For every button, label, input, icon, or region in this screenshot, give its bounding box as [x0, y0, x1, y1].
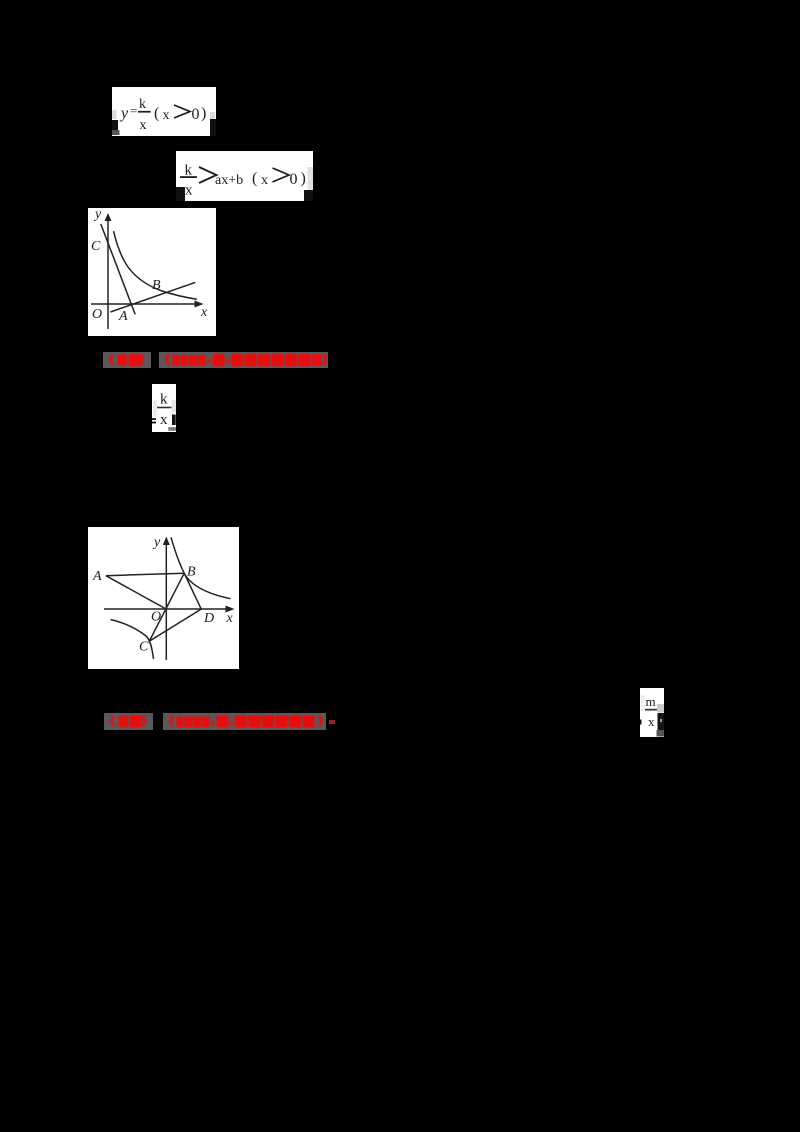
svg-text:x: x	[261, 173, 268, 188]
svg-text:): )	[201, 105, 206, 122]
svg-text:ax+b: ax+b	[215, 173, 243, 188]
fragment glyph bottom-right	[210, 112, 215, 119]
svg-text:y: y	[152, 535, 161, 550]
red highlighted heading 2	[104, 713, 153, 730]
line B-O-C	[149, 573, 184, 641]
svg-text:C: C	[91, 239, 101, 254]
svg-text:k: k	[139, 97, 146, 112]
fragment glyph bottom-left	[176, 187, 185, 201]
graph image 1	[88, 208, 216, 336]
svg-text:x: x	[160, 412, 168, 428]
svg-text:x: x	[163, 108, 170, 123]
svg-text:0: 0	[290, 171, 298, 188]
svg-text:B: B	[187, 565, 196, 580]
hyperbola branch Q3	[111, 620, 154, 660]
svg-text:): )	[301, 170, 306, 187]
x-axis	[104, 608, 229, 610]
line C-A	[101, 224, 135, 314]
fragment glyph bottom-right	[304, 190, 313, 201]
y-axis arrowhead	[163, 537, 170, 546]
svg-text:0: 0	[192, 106, 200, 123]
svg-text:x: x	[140, 118, 147, 133]
y-axis arrowhead	[105, 213, 112, 221]
svg-text:k: k	[185, 163, 193, 179]
svg-text:y: y	[93, 208, 102, 222]
x-axis arrowhead	[195, 301, 204, 308]
equals fragment left	[152, 418, 156, 420]
svg-text:=: =	[130, 103, 137, 118]
svg-text:C: C	[139, 640, 149, 655]
formula image 3: k/x	[152, 384, 176, 432]
hyperbola branch	[114, 231, 197, 299]
dark red dash	[329, 720, 335, 724]
x-axis	[91, 303, 198, 305]
svg-text:A: A	[92, 569, 102, 584]
fragment glyph bottom-left	[112, 120, 118, 130]
formula image 4: m/x	[640, 688, 664, 737]
red highlighted heading 1	[103, 352, 151, 368]
line A-B	[110, 282, 195, 312]
svg-text:k: k	[160, 392, 168, 408]
formula image 1: y = k/x (x>0)	[112, 87, 216, 136]
svg-text:(: (	[252, 170, 257, 187]
line A-B	[106, 573, 184, 576]
svg-text:A: A	[118, 309, 128, 324]
line B-D	[184, 573, 201, 609]
line C-D	[149, 609, 201, 641]
fragment glyph right	[172, 415, 176, 426]
svg-text:B: B	[152, 278, 161, 293]
graph image 2	[88, 527, 239, 669]
svg-text:x: x	[200, 305, 208, 320]
svg-text:(: (	[154, 105, 159, 122]
hyperbola branch Q1	[171, 537, 231, 598]
svg-text:x: x	[185, 183, 193, 199]
svg-text:x: x	[226, 611, 234, 626]
y-axis	[107, 216, 109, 329]
svg-text:y: y	[119, 105, 129, 122]
formula image 2: k/x > ax+b (x>0)	[176, 151, 313, 201]
svg-text:O: O	[92, 307, 102, 322]
line A-O	[106, 576, 166, 609]
svg-text:O: O	[151, 610, 161, 625]
svg-text:m: m	[646, 694, 656, 709]
x-axis arrowhead	[226, 606, 235, 613]
svg-text:x: x	[648, 714, 655, 729]
svg-text:D: D	[203, 611, 214, 626]
y-axis	[165, 541, 167, 660]
